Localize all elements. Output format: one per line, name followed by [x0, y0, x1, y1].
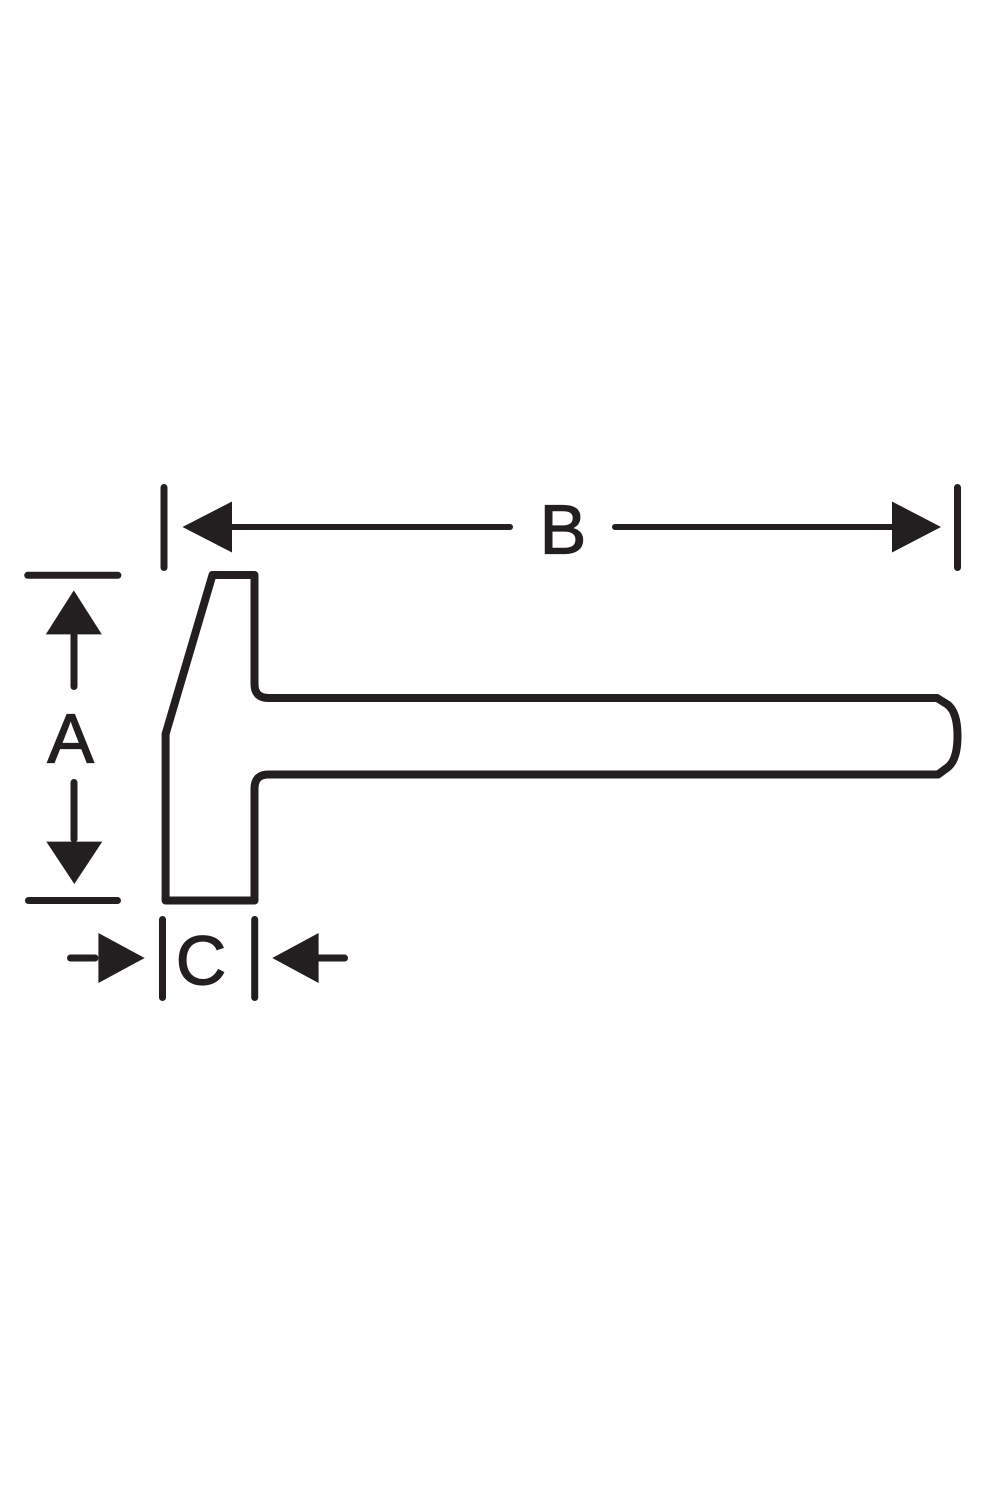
dimension B left arrowhead	[183, 502, 233, 553]
dimension B right line	[615, 524, 893, 530]
hammer outline	[166, 575, 958, 901]
svg-text:C: C	[176, 922, 227, 1000]
dimension B left tick	[161, 488, 168, 568]
dimension B left line	[231, 524, 510, 530]
dimension C left arrowhead	[98, 933, 144, 983]
dimension A upper line	[71, 633, 78, 687]
dimension C right tail line	[318, 955, 345, 962]
dimension C right arrowhead	[272, 933, 318, 983]
dimension A bottom tick	[29, 897, 118, 904]
dimension A lower line	[71, 783, 78, 840]
dimension B right arrowhead	[892, 502, 941, 553]
svg-text:A: A	[47, 699, 94, 777]
dimension C left tail line	[71, 955, 96, 962]
dimension A top tick	[28, 572, 118, 579]
dimension C left tick	[159, 920, 166, 998]
dimension A down arrowhead	[46, 842, 102, 884]
svg-text:B: B	[540, 491, 587, 569]
dimension B right tick	[954, 488, 961, 568]
dimension C right tick	[251, 920, 258, 998]
dimension A up arrowhead	[46, 590, 102, 634]
